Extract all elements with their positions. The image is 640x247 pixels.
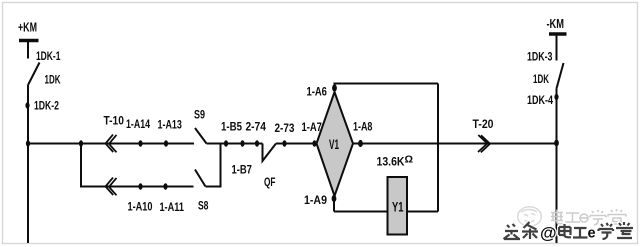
svg-text:1-A9: 1-A9	[304, 193, 327, 207]
junction	[79, 140, 83, 146]
wire lower branch	[81, 144, 194, 187]
node 1-A9	[332, 195, 337, 202]
wire right loop vertical	[437, 84, 439, 212]
wire left rail	[27, 85, 29, 243]
svg-text:@: @	[540, 224, 557, 243]
node 1-B5	[224, 140, 228, 146]
node 1DK-4	[554, 94, 558, 100]
node 1DK-2	[25, 102, 29, 108]
wire bottom loop left	[334, 211, 388, 213]
node 1-A10	[138, 183, 142, 189]
svg-text:1DK-1: 1DK-1	[36, 49, 61, 63]
wire	[27, 42, 29, 59]
svg-text:-KM: -KM	[546, 16, 564, 31]
svg-text:Ω: Ω	[405, 155, 414, 166]
node 1-A7	[312, 140, 316, 146]
wire bottom loop right	[407, 211, 438, 213]
svg-text:1-A7: 1-A7	[301, 120, 322, 134]
svg-text:1-B5: 1-B5	[221, 120, 242, 134]
thyristor V1 diamond	[317, 92, 354, 196]
svg-text:1DK-2: 1DK-2	[34, 99, 59, 113]
svg-text:1DK: 1DK	[45, 73, 61, 87]
node 1-A14	[138, 140, 142, 146]
node 1-A8	[358, 140, 363, 147]
svg-text:1-A10: 1-A10	[128, 200, 153, 214]
junction right	[554, 140, 559, 147]
svg-text:2-74: 2-74	[245, 120, 266, 134]
wire S8 connector	[206, 144, 221, 187]
switch S9	[195, 128, 207, 144]
svg-text:V1: V1	[329, 136, 339, 152]
wire QF to V1	[276, 143, 317, 145]
svg-text:e: e	[588, 226, 596, 242]
svg-text:1-A14: 1-A14	[126, 117, 150, 131]
wire right rail	[556, 89, 558, 244]
node 1-A11	[163, 183, 167, 189]
disconnect switch 1DK (right)	[557, 63, 564, 89]
breaker QF	[263, 144, 277, 162]
svg-text:1-A6: 1-A6	[306, 85, 327, 99]
node 1-A6	[332, 84, 337, 91]
svg-text:Y1: Y1	[392, 199, 404, 215]
node +KM	[18, 20, 37, 35]
svg-text:13.6K: 13.6K	[377, 155, 405, 169]
connector T-20 chevron	[478, 135, 490, 152]
svg-text:1-A8: 1-A8	[353, 120, 373, 134]
node 2-74	[240, 140, 244, 146]
resistor Y1	[388, 177, 408, 235]
node 1-B7	[255, 140, 259, 146]
svg-text:T-20: T-20	[473, 117, 494, 131]
connector chevron lower	[106, 178, 117, 196]
wire V1 top	[334, 84, 336, 93]
svg-text:1-B7: 1-B7	[231, 163, 252, 177]
wire V1 to right rail	[353, 143, 557, 145]
switch S8	[195, 170, 206, 187]
svg-text:QF: QF	[264, 175, 276, 189]
watermark dark text	[504, 222, 634, 239]
svg-text:1-A13: 1-A13	[157, 118, 182, 132]
node 2-73	[282, 140, 286, 146]
wire S9 to QF	[207, 143, 263, 145]
svg-text:1DK-4: 1DK-4	[527, 93, 553, 107]
disconnect switch 1DK (left)	[28, 63, 40, 86]
connector T-10 chevron	[106, 135, 117, 153]
terminal bar +KM	[19, 39, 39, 43]
wire top loop	[334, 83, 439, 85]
junction	[26, 140, 30, 146]
label 13.6K ohm	[377, 155, 414, 169]
svg-text:1DK: 1DK	[533, 72, 549, 86]
svg-text:S8: S8	[198, 199, 209, 213]
svg-text:1-A11: 1-A11	[159, 200, 184, 214]
wire main left	[28, 143, 194, 145]
node 1-A13	[164, 140, 168, 146]
terminal bar -KM	[549, 32, 567, 36]
svg-text:T-10: T-10	[103, 114, 124, 128]
wire V1 bottom	[333, 196, 335, 212]
wire	[556, 36, 558, 61]
watermark logo circle	[518, 207, 542, 227]
watermark gray text	[551, 209, 626, 225]
svg-text:2-73: 2-73	[275, 121, 295, 135]
svg-text:+KM: +KM	[18, 20, 37, 35]
svg-text:1DK-3: 1DK-3	[527, 50, 553, 64]
svg-text:S9: S9	[194, 108, 205, 122]
